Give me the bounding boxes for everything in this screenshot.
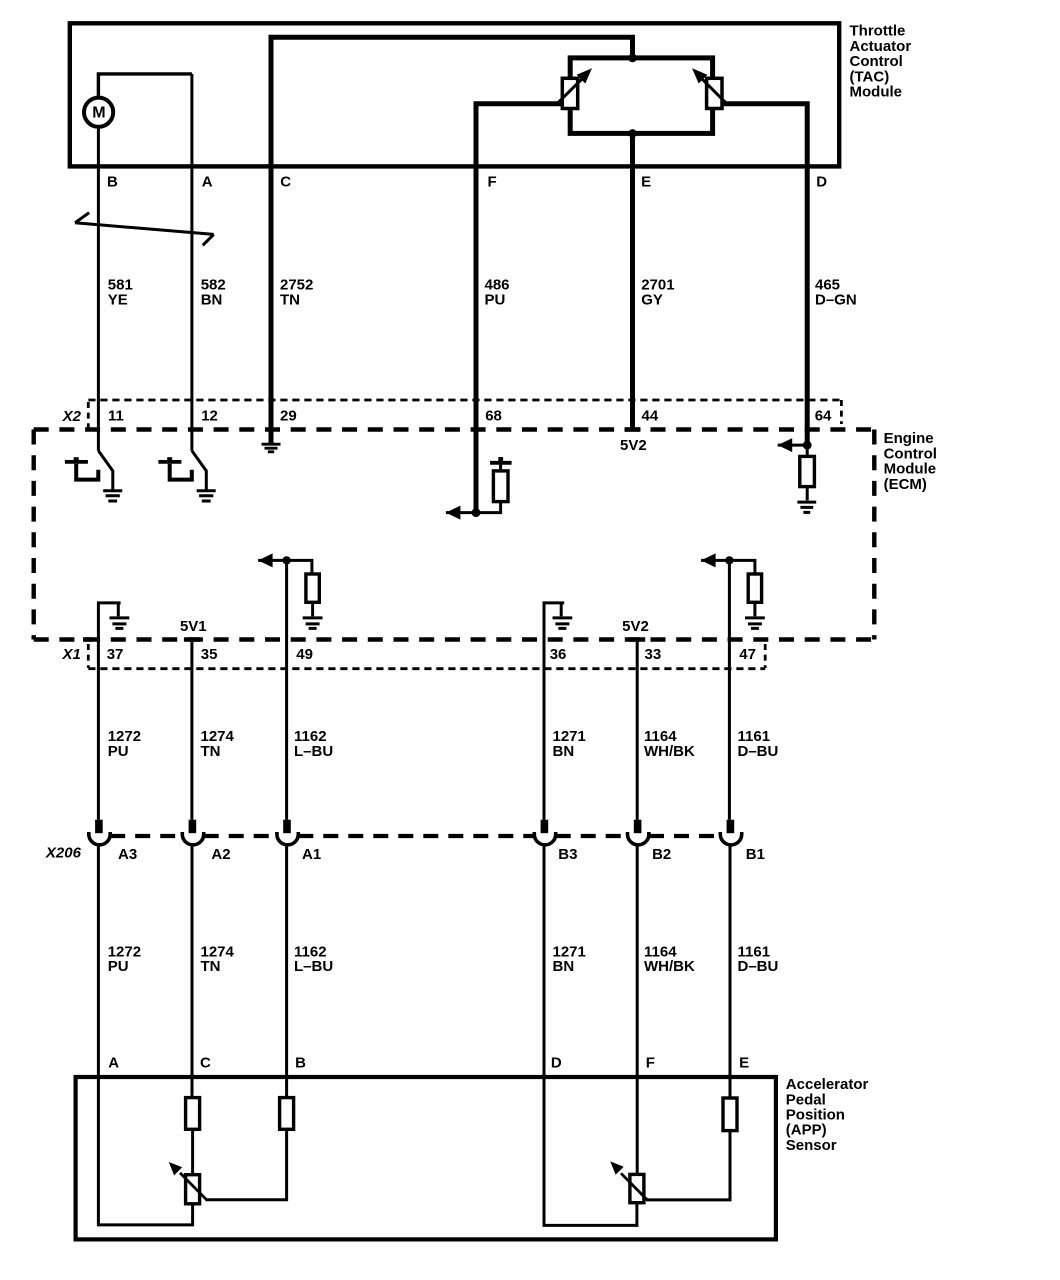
svg-text:E: E <box>739 1055 749 1072</box>
potentiometer TP1 wiper arrow <box>556 79 582 105</box>
resistor (APP B branch) <box>280 1098 294 1130</box>
svg-text:A3: A3 <box>118 846 137 863</box>
svg-text:WH/BK: WH/BK <box>644 958 695 975</box>
svg-text:5V1: 5V1 <box>180 618 207 635</box>
svg-text:BN: BN <box>553 743 575 760</box>
svg-text:A2: A2 <box>211 846 230 863</box>
svg-text:68: 68 <box>485 408 502 425</box>
ECM internal circuit at pin 64: signal arrow, junction, pull-down resistor to ground <box>778 445 808 456</box>
svg-text:X1: X1 <box>62 646 81 663</box>
svg-text:29: 29 <box>280 408 297 425</box>
svg-text:Sensor: Sensor <box>786 1137 837 1154</box>
X206 terminal B3 <box>541 820 549 834</box>
APP pot 2 wiper body <box>630 1174 644 1202</box>
wire: motor top to pin A <box>98 74 191 98</box>
wire A (pin A vertical, TAC to ECM) <box>190 74 193 451</box>
svg-text:(ECM): (ECM) <box>884 476 927 493</box>
svg-text:37: 37 <box>107 646 124 663</box>
svg-text:D: D <box>551 1055 562 1072</box>
wire pin 35 (5V1 feed) down to X206 <box>190 640 193 820</box>
potentiometer TP2 wiper arrow <box>702 79 728 105</box>
ECM dashed box <box>34 427 875 431</box>
svg-text:PU: PU <box>108 743 129 760</box>
ground at pin 29 <box>262 444 281 452</box>
resistor (pin 47 pull-down) <box>748 574 761 602</box>
resistor (APP E branch) <box>723 1098 737 1131</box>
double-headed direction arrow across motor wires <box>75 213 214 246</box>
svg-text:5V2: 5V2 <box>620 437 647 454</box>
svg-text:TN: TN <box>201 743 221 760</box>
APP wire F to wiper top <box>636 1077 639 1174</box>
X206 terminal B2 <box>634 820 642 834</box>
svg-text:WH/BK: WH/BK <box>644 743 695 760</box>
svg-text:YE: YE <box>108 291 128 308</box>
svg-text:F: F <box>488 174 497 191</box>
wire 1274 below X206 A2 <box>191 845 194 1077</box>
APP wire E with series resistor to wiper <box>729 1077 732 1098</box>
svg-text:A1: A1 <box>302 846 321 863</box>
svg-text:B: B <box>107 174 118 191</box>
APP wire A to wiper bottom <box>98 1077 192 1225</box>
wire F (thick, pin F to pot and down to ECM) <box>476 104 563 513</box>
svg-text:35: 35 <box>201 646 218 663</box>
ground at pin 47 resistor <box>745 618 765 629</box>
wire D (thick, pot to pin D down to ECM) <box>722 104 807 445</box>
APP wire D to wiper bottom <box>544 1077 637 1225</box>
X206 terminal A1 <box>283 820 291 834</box>
svg-text:33: 33 <box>645 646 662 663</box>
APP wire B with series resistor to wiper <box>285 1077 288 1098</box>
X2 connector dashed band <box>88 399 841 402</box>
svg-text:49: 49 <box>296 646 313 663</box>
resistor (pin 64 pull-down) <box>800 456 815 486</box>
svg-text:F: F <box>646 1055 655 1072</box>
svg-text:D: D <box>816 174 827 191</box>
APP pot 2 wiper arrow <box>621 1173 647 1200</box>
resistor (pin 49 pull-down) <box>306 574 319 602</box>
ground at pin 12 driver <box>197 491 216 501</box>
potentiometer TP2 body <box>707 78 722 108</box>
svg-text:C: C <box>280 174 291 191</box>
X206 terminal B1 <box>727 820 735 834</box>
svg-text:C: C <box>200 1055 211 1072</box>
dash tick at pin 44 wire end <box>625 427 641 431</box>
X206 terminal A2 <box>189 820 197 834</box>
svg-text:D–GN: D–GN <box>815 291 857 308</box>
svg-text:B: B <box>295 1055 306 1072</box>
svg-text:Module: Module <box>850 84 903 101</box>
svg-text:B3: B3 <box>558 846 577 863</box>
ECM internal circuit at pin 49: signal arrow, junction, pull-down resistor <box>285 560 288 819</box>
svg-text:E: E <box>641 174 651 191</box>
svg-text:D–BU: D–BU <box>738 958 779 975</box>
ECM internal ground at pin 37 <box>98 603 120 820</box>
X1 connector dashed band <box>88 667 765 670</box>
svg-text:PU: PU <box>108 958 129 975</box>
svg-text:X206: X206 <box>45 845 82 862</box>
svg-text:M: M <box>92 105 105 122</box>
X206 in-line connector dashed link <box>110 834 182 838</box>
svg-text:B2: B2 <box>652 846 671 863</box>
APP wire C with series resistor <box>191 1077 194 1098</box>
svg-text:36: 36 <box>550 646 567 663</box>
svg-text:5V2: 5V2 <box>622 618 649 635</box>
ECM internal ground at pin 36 <box>544 603 564 820</box>
wire pin 33 (5V2 feed) down to X206 <box>636 640 639 820</box>
wire 1271 below X206 B3 <box>543 845 546 1077</box>
throttle position sensor box <box>570 58 712 133</box>
svg-text:44: 44 <box>642 408 659 425</box>
wire E (thick, pot box bottom to ECM top) <box>630 133 635 429</box>
svg-text:BN: BN <box>201 291 223 308</box>
dash tick at pin 35 wire end <box>83 637 200 641</box>
wire 1162 below X206 A1 <box>285 845 288 1077</box>
svg-text:12: 12 <box>201 408 218 425</box>
APP pot 1 wiper body <box>186 1175 200 1204</box>
resistor (APP C branch) <box>186 1098 200 1130</box>
svg-text:64: 64 <box>815 408 832 425</box>
svg-text:47: 47 <box>739 646 756 663</box>
svg-text:TN: TN <box>201 958 221 975</box>
svg-text:11: 11 <box>108 408 124 425</box>
junction node at pot box bottom <box>628 129 637 138</box>
svg-text:BN: BN <box>553 958 575 975</box>
svg-text:L–BU: L–BU <box>294 743 333 760</box>
ECM internal circuit at pin 47: signal arrow, junction, pull-down resistor <box>728 560 731 819</box>
svg-text:D–BU: D–BU <box>738 743 779 760</box>
svg-text:A: A <box>202 174 213 191</box>
wire 1161 below X206 B1 <box>729 845 732 1077</box>
potentiometer TP1 body <box>562 78 577 108</box>
APP pot 1 wiper arrow <box>180 1173 207 1200</box>
motor M <box>84 98 113 127</box>
ground at pin 64 resistor <box>797 502 816 512</box>
svg-text:A: A <box>108 1055 119 1072</box>
dash tick at pin 33 wire end <box>629 637 645 641</box>
svg-text:B1: B1 <box>746 846 765 863</box>
ground at pin 49 resistor <box>303 618 323 629</box>
wire 1164 below X206 B2 <box>636 845 639 1077</box>
wire B (motor bottom to ECM pin 11) <box>97 127 100 451</box>
resistor (pin 68 pull-up) <box>493 471 508 502</box>
X206 terminal A3 <box>95 820 103 834</box>
svg-text:GY: GY <box>641 291 663 308</box>
svg-text:X2: X2 <box>62 408 82 425</box>
wire: thick C path from pin C up and over to throttle pot box <box>271 37 633 443</box>
wire 1272 below X206 A3 <box>97 845 100 1077</box>
junction node at pot box top <box>628 54 637 63</box>
TAC module box <box>70 23 839 166</box>
ECM internal circuit at pin 68: signal arrow, junction, pull-up resistor to 5V <box>446 502 501 513</box>
ECM driver symbol at pin 12 <box>192 451 206 490</box>
ECM driver symbol at pin 11 <box>98 451 112 490</box>
5V rail symbol above pin 68 resistor <box>490 461 512 465</box>
svg-text:L–BU: L–BU <box>294 958 333 975</box>
svg-text:PU: PU <box>485 291 506 308</box>
APP sensor box <box>76 1077 776 1239</box>
ground at pin 11 driver <box>103 491 122 501</box>
svg-text:TN: TN <box>280 291 300 308</box>
